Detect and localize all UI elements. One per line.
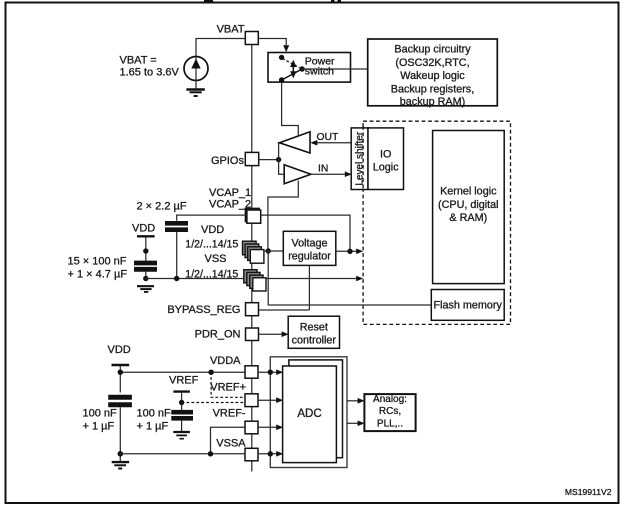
wire VDDA rail	[120, 371, 245, 373]
capacitor 100nF+1uF (VREF)	[171, 412, 193, 418]
svg-text:VCAP_1: VCAP_1	[209, 187, 251, 199]
svg-text:BYPASS_REG: BYPASS_REG	[167, 304, 240, 316]
ground VREF	[173, 432, 190, 439]
svg-text:switch: switch	[305, 66, 334, 78]
switch contact top	[279, 55, 284, 60]
svg-text:VDDA: VDDA	[210, 355, 241, 367]
dashed wire VDDA to VREF+	[211, 372, 245, 397]
arrowhead analog 1	[358, 398, 365, 404]
svg-text:+ 1 × 4.7 µF: + 1 × 4.7 µF	[68, 269, 128, 281]
wire BYPASS_REG to regulator bottom	[259, 309, 310, 311]
pin VCAP_1 VCAP_2 (2 stacked)	[245, 208, 260, 223]
ground bottom left	[112, 462, 129, 468]
svg-text:VBAT: VBAT	[217, 24, 245, 36]
capacitor 100nF+1uF (VDD bottom)	[108, 397, 132, 405]
svg-text:Wakeup logic: Wakeup logic	[400, 70, 465, 82]
svg-text:VDD: VDD	[201, 224, 224, 236]
svg-text:Backup registers,: Backup registers,	[391, 83, 474, 95]
VDD rail symbol	[137, 236, 155, 260]
wire VREF- to ADC	[258, 426, 278, 428]
wire pin column VREF+ to VREF-	[251, 407, 253, 422]
svg-text:100 nF: 100 nF	[83, 408, 118, 420]
voltage regulator box	[283, 231, 336, 265]
capacitor 15x100nF	[134, 263, 157, 269]
wire pin column PDR_ON to VDDA	[251, 341, 253, 366]
wire VREF cap to ground	[181, 420, 183, 431]
level shifter box	[351, 128, 368, 190]
wire IN to level shifter	[311, 173, 346, 175]
node VREF junction	[179, 400, 184, 405]
node GPIO junction	[276, 157, 281, 162]
svg-text:GPIOs: GPIOs	[211, 155, 245, 167]
wire VSSA rail	[120, 453, 245, 455]
svg-text:VREF: VREF	[169, 375, 199, 387]
wire VSSA to ADC	[258, 453, 278, 455]
wire regulator bottom to bypass	[308, 265, 310, 310]
node VDDA dashed junction	[208, 370, 213, 375]
wire pin column VCAP to BYPASS_REG	[251, 223, 253, 303]
arrowhead VREF- into ADC	[276, 425, 283, 431]
wire GPIOs to buffers	[259, 159, 279, 161]
arrowhead analog 2	[358, 421, 365, 427]
label backup circuitry	[391, 44, 474, 109]
svg-text:1/2/...14/15: 1/2/...14/15	[185, 268, 238, 280]
node VSS rail left junction	[143, 276, 148, 281]
wire pin column VDDA to VREF+	[251, 378, 253, 394]
svg-text:VDD: VDD	[132, 223, 155, 235]
svg-text:ADC: ADC	[297, 408, 321, 420]
ground	[186, 90, 204, 97]
svg-text:Backup circuitry: Backup circuitry	[394, 44, 471, 56]
analog container box	[270, 357, 347, 468]
node VDD pins junction	[266, 248, 271, 253]
input buffer (right-pointing)	[284, 165, 311, 184]
pin BYPASS_REG	[246, 303, 259, 316]
pin GPIOs	[245, 152, 258, 165]
wire power switch output down to buffers	[282, 82, 299, 136]
wire VCAP to regulator output node	[261, 215, 350, 251]
pin PDR_ON	[246, 328, 259, 341]
reset controller box	[288, 316, 339, 348]
wire VDDA to ADC	[258, 371, 278, 373]
wire VREF- to VSSA rail	[211, 427, 246, 454]
ADC front box	[283, 366, 337, 463]
node 2.2uF to VSS junction	[174, 276, 179, 281]
svg-text:1/2/...14/15: 1/2/...14/15	[185, 238, 238, 250]
svg-text:OUT: OUT	[317, 132, 339, 143]
svg-text:Voltage: Voltage	[291, 237, 327, 249]
capacitor 2x2.2uF	[165, 223, 188, 229]
cut-off caption remnant	[204, 0, 341, 2]
node VSSA container junction	[268, 451, 273, 456]
wire pin column stub below VSSA	[251, 461, 253, 472]
wire capacitor to VSSA rail	[119, 407, 121, 461]
svg-text:VREF-: VREF-	[213, 408, 246, 420]
wire capacitor to ground rail	[145, 272, 147, 279]
wire pin column BYPASS_REG to PDR_ON	[251, 316, 253, 328]
wire PDR_ON to reset controller	[259, 333, 284, 335]
switch solid throw	[282, 69, 303, 80]
wire VSS rail	[146, 278, 357, 280]
svg-text:PDR_ON: PDR_ON	[195, 328, 241, 340]
node regulator output	[347, 249, 352, 254]
wire buffers lower supply rail	[268, 181, 298, 252]
svg-text:Level shifter: Level shifter	[355, 131, 366, 186]
svg-text:PLL,..: PLL,..	[377, 418, 403, 429]
wire pin column VREF- to VSSA	[251, 434, 253, 449]
svg-text:IO: IO	[380, 149, 391, 161]
svg-text:& RAM): & RAM)	[449, 212, 487, 224]
svg-text:backup RAM): backup RAM)	[400, 96, 465, 108]
wire VDD junction to regulator	[264, 250, 283, 252]
pin VSS stack	[244, 270, 266, 291]
VREF rail symbol	[173, 392, 190, 410]
svg-text:Analog:: Analog:	[373, 394, 407, 405]
node VDD rail junction	[143, 248, 148, 253]
wire pin column GPIOs to VCAP	[251, 166, 253, 210]
svg-text:(OSC32K,RTC,: (OSC32K,RTC,	[395, 57, 469, 69]
arrowhead OUT into buffer	[310, 140, 317, 146]
wire junction to input buffer base	[279, 160, 285, 175]
svg-text:Reset: Reset	[300, 321, 328, 333]
switch double arrow	[290, 60, 296, 79]
analog block box	[364, 394, 415, 431]
wire VREF+ to ADC	[258, 399, 278, 401]
svg-text:regulator: regulator	[288, 250, 331, 262]
svg-text:Flash memory: Flash memory	[433, 300, 502, 312]
wire regulator output	[336, 250, 357, 252]
svg-text:VBAT =: VBAT =	[120, 55, 157, 67]
arrowhead VSS into kernel domain	[356, 276, 363, 282]
svg-text:1.65 to 3.6V: 1.65 to 3.6V	[120, 67, 180, 79]
dashed boundary over level shifter	[362, 126, 364, 191]
node VREF- VSSA junction	[208, 451, 213, 456]
arrowhead into power switch	[283, 45, 289, 52]
svg-text:IN: IN	[318, 164, 328, 175]
label Kernel logic	[438, 186, 499, 225]
arrowhead IN into level shifter	[345, 171, 352, 177]
svg-text:100 nF: 100 nF	[137, 408, 172, 420]
VDD rail symbol bottom	[112, 365, 130, 393]
svg-text:VDD: VDD	[108, 344, 131, 356]
pin VBAT	[245, 32, 258, 45]
label Analog RCs PLL	[373, 394, 407, 430]
wire VBAT pin to current source	[196, 39, 245, 58]
arrowhead VDDA into ADC	[276, 369, 283, 375]
kernel logic box	[433, 131, 505, 284]
arrowhead VREF+ into ADC	[276, 397, 283, 403]
arrowhead regulator output into kernel domain	[356, 249, 363, 255]
svg-text:VREF+: VREF+	[210, 382, 246, 394]
flash memory box	[431, 290, 504, 321]
node VSSA left junction	[118, 451, 124, 457]
wire VCAP to capacitor	[177, 215, 247, 221]
svg-text:Kernel logic: Kernel logic	[440, 186, 497, 198]
svg-text:VSSA: VSSA	[216, 437, 246, 449]
wire power switch to backup circuitry	[302, 68, 368, 70]
switch dashed throw	[283, 59, 300, 68]
ADC back box	[289, 360, 343, 458]
pin VREF+	[245, 394, 258, 407]
pin VDDA	[245, 366, 258, 378]
pin VREF-	[245, 421, 258, 434]
wire OUT from level shifter	[317, 142, 351, 144]
svg-text:MS19911V2: MS19911V2	[565, 487, 612, 497]
dashed kernel domain box	[363, 121, 510, 324]
svg-text:controller: controller	[292, 334, 337, 346]
svg-text:Logic: Logic	[373, 162, 399, 174]
ground below 100nF caps	[137, 286, 154, 292]
wire junction to output buffer apex	[278, 143, 281, 160]
IO logic box	[368, 128, 404, 190]
svg-text:2 × 2.2 µF: 2 × 2.2 µF	[137, 200, 187, 212]
switch contact bottom	[279, 77, 284, 82]
backup circuitry box	[368, 39, 498, 106]
wire VBAT pin to power switch	[258, 39, 286, 47]
wire container to analog box 2	[347, 422, 359, 424]
current source VBAT	[184, 57, 208, 89]
svg-text:RCs,: RCs,	[379, 406, 401, 417]
node VDD-VDDA junction	[118, 370, 123, 375]
svg-text:+ 1 µF: + 1 µF	[137, 421, 169, 433]
dashed wire VREF to VREF+	[182, 402, 245, 404]
arrowhead VSSA into ADC	[276, 451, 283, 457]
output buffer (left-pointing)	[280, 132, 311, 153]
wire container to analog box 1	[347, 400, 359, 402]
node VDDA container junction	[268, 370, 273, 375]
svg-text:(CPU, digital: (CPU, digital	[438, 199, 499, 211]
pin VDD stack	[243, 241, 264, 263]
arrowhead into reset controller	[282, 331, 289, 337]
svg-text:+ 1 µF: + 1 µF	[83, 421, 115, 433]
svg-text:15 × 100 nF: 15 × 100 nF	[68, 256, 127, 268]
svg-text:VSS: VSS	[205, 253, 227, 265]
switch common contact	[299, 66, 304, 71]
pin VSSA	[245, 448, 258, 461]
wire pin column VBAT to GPIOs	[251, 45, 253, 153]
wire VDD junction down to flash rail	[268, 251, 431, 305]
wire capacitor to VSS rail	[176, 232, 178, 279]
power switch box	[268, 53, 351, 83]
